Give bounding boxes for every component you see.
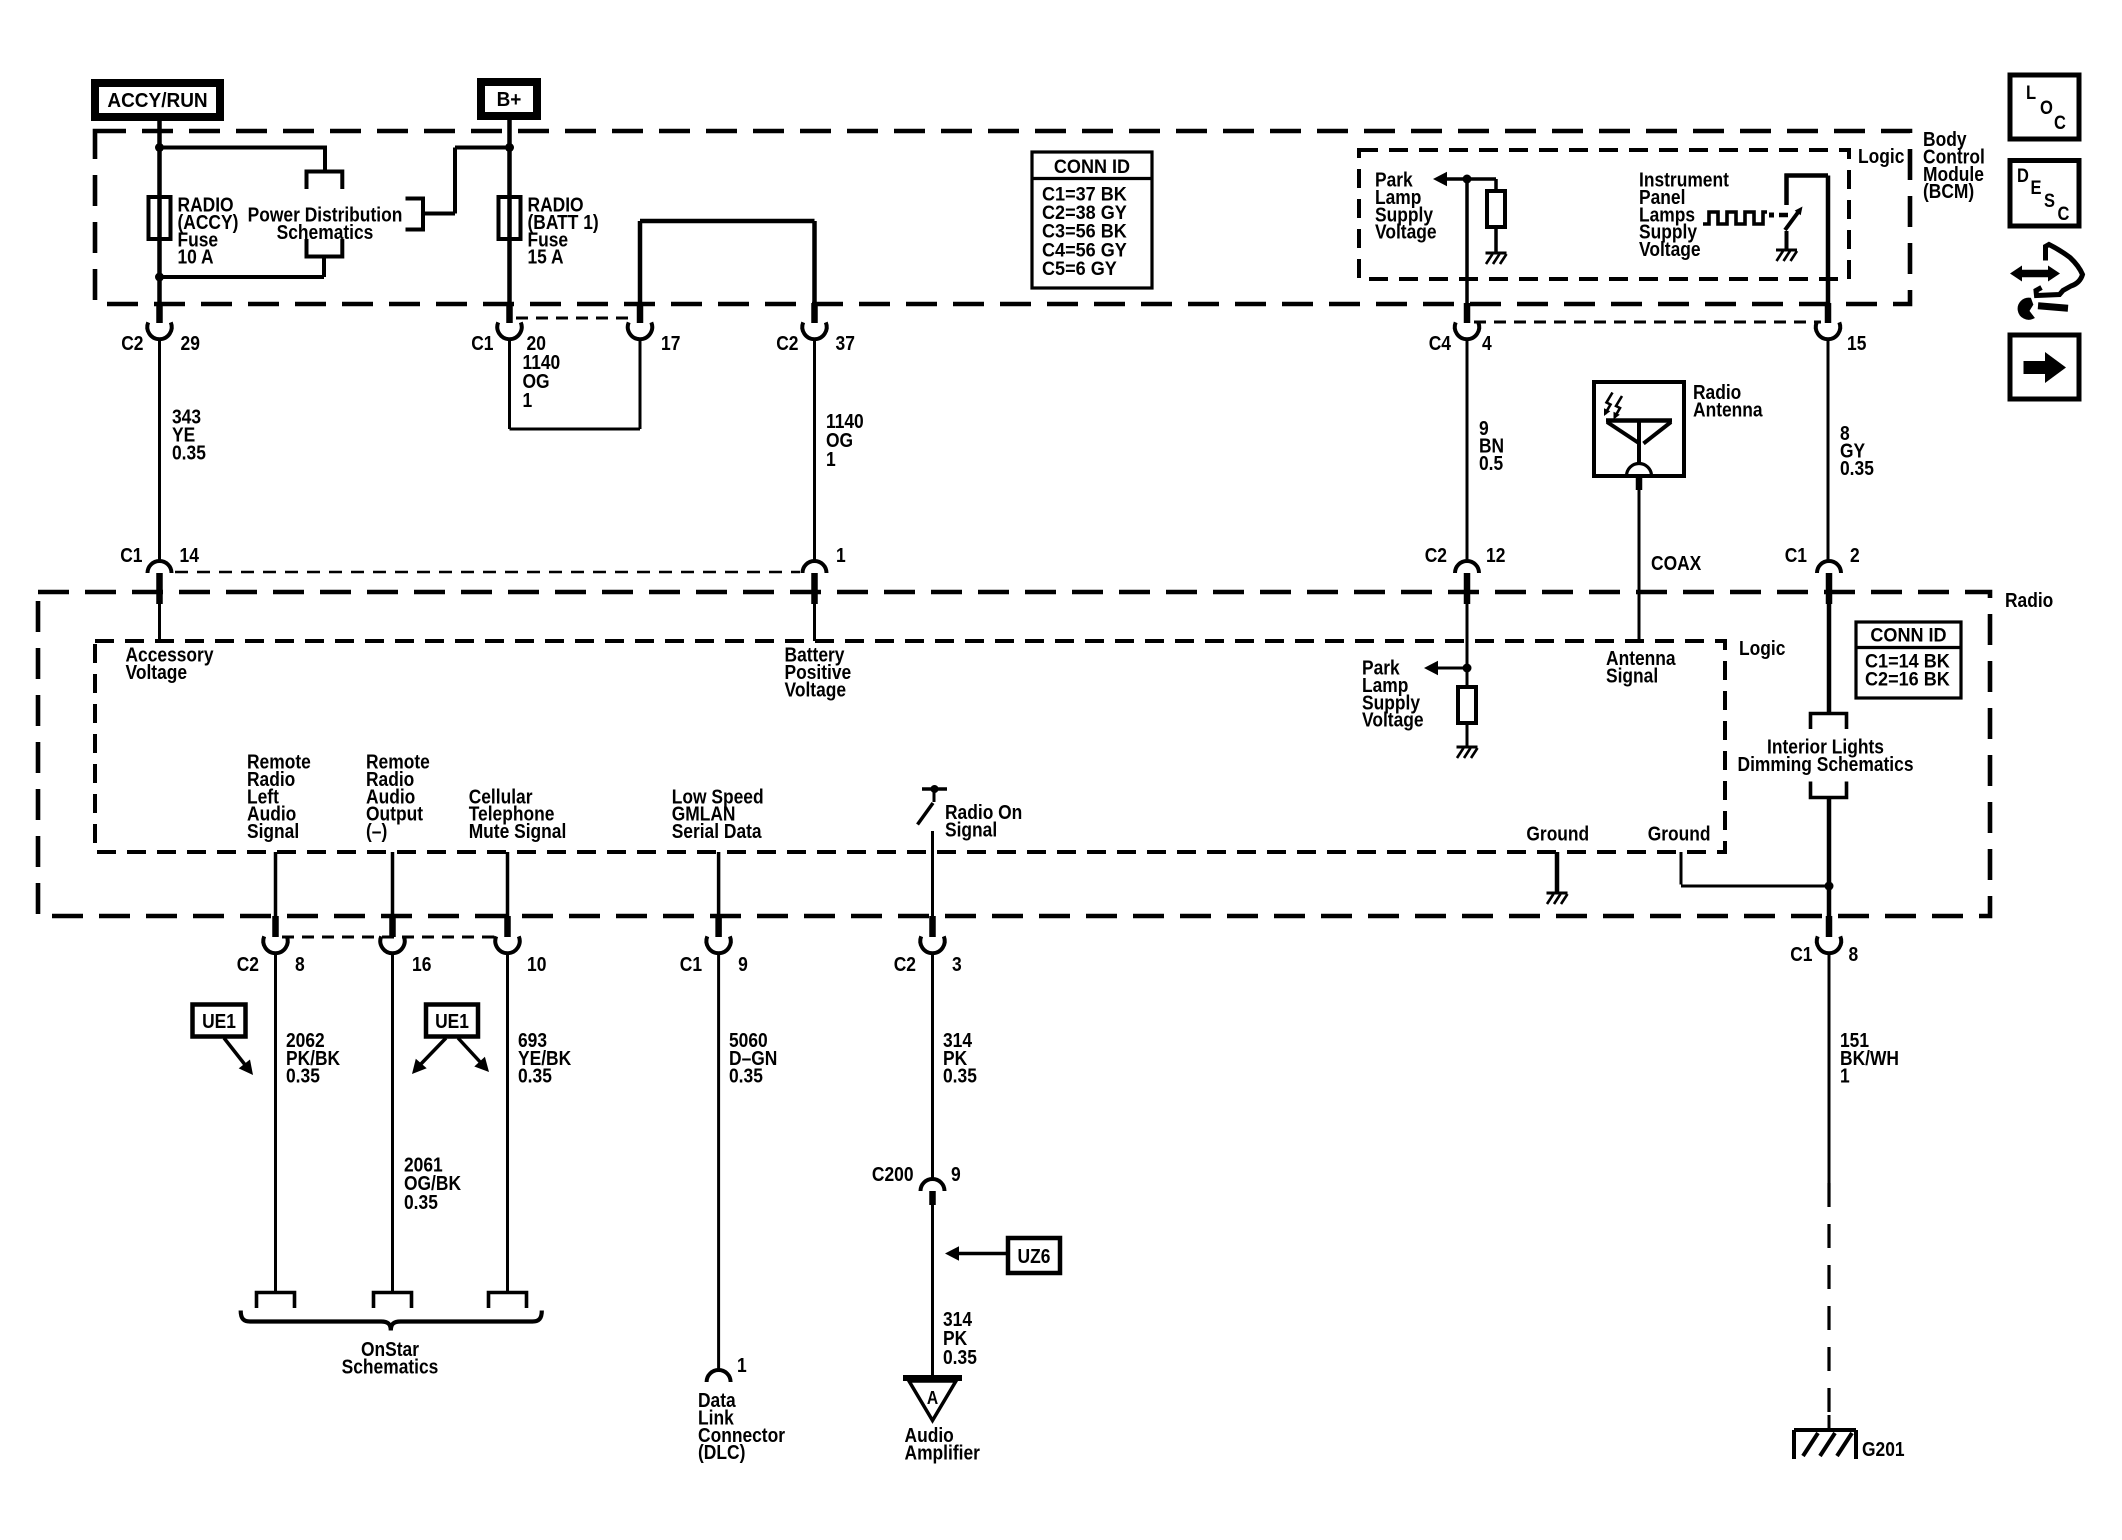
wire switch to ground (instrument lamps): [1785, 231, 1789, 250]
node junction B+: [505, 143, 514, 152]
callout UE1 right: [426, 1005, 478, 1037]
arrow park lamp supply (radio): [1424, 661, 1438, 675]
svg-text:Radio: Radio: [2005, 590, 2053, 612]
wire battery positive into radio: [813, 604, 816, 641]
connector link C1 20 to 17: [516, 317, 634, 320]
svg-text:Ground: Ground: [1526, 824, 1589, 846]
ground chassis (instrument lamps): [1776, 249, 1797, 252]
switch instrument panel lamps lever: [1785, 211, 1799, 230]
svg-text:37: 37: [836, 333, 855, 355]
svg-text:O: O: [2040, 98, 2053, 119]
svg-text:A: A: [927, 1388, 938, 1408]
wire ACCY/RUN to fuse: [157, 117, 162, 303]
wire 1140 OG to radio: [813, 339, 816, 561]
svg-text:0.35: 0.35: [943, 1347, 977, 1369]
svg-text:Voltage: Voltage: [126, 662, 188, 684]
svg-text:C200: C200: [872, 1164, 914, 1186]
connector pin 16 stub (remote audio output): [389, 916, 396, 937]
connector C2 pin 8 (remote left audio): [263, 936, 287, 953]
svg-text:S: S: [2044, 191, 2055, 212]
brace OnStar: [241, 1311, 542, 1331]
svg-text:CONN ID: CONN ID: [1870, 626, 1946, 647]
off-page ref Interior Lights top bracket: [1811, 714, 1847, 730]
svg-text:Mute Signal: Mute Signal: [469, 821, 567, 843]
svg-text:0.35: 0.35: [286, 1066, 320, 1088]
wire resistor to ground (radio): [1466, 723, 1469, 747]
svg-text:UE1: UE1: [202, 1011, 236, 1033]
switch Radio On Signal: [922, 787, 947, 791]
connector C2 pin 8 stub (remote left audio): [272, 916, 279, 937]
wire remote audio output inside radio: [391, 852, 395, 916]
svg-text:Serial Data: Serial Data: [672, 821, 763, 843]
terminal onstar 3: [489, 1293, 527, 1309]
svg-text:0.35: 0.35: [1840, 458, 1874, 480]
svg-text:12: 12: [1486, 545, 1505, 567]
switch instrument panel lamps upper contact: [1784, 174, 1789, 206]
svg-text:Dimming Schematics: Dimming Schematics: [1738, 754, 1914, 776]
wire ground case to pin 8: [1680, 852, 1683, 885]
svg-text:(BCM): (BCM): [1923, 181, 1974, 203]
arrow UE1 right-left: [419, 1038, 446, 1066]
dashed box Radio logic: [95, 641, 1725, 852]
svg-text:C2: C2: [121, 333, 143, 355]
svg-text:0.35: 0.35: [404, 1192, 438, 1214]
svg-text:Voltage: Voltage: [1639, 239, 1701, 261]
svg-text:C: C: [2058, 204, 2070, 225]
table CONN ID (radio): [1856, 622, 1961, 698]
wire park lamp arrow to resistor: [1447, 177, 1496, 181]
svg-text:Antenna: Antenna: [1693, 399, 1763, 421]
svg-text:1: 1: [737, 1355, 747, 1377]
svg-text:0.35: 0.35: [172, 443, 206, 465]
connector pin 1 (radio): [803, 561, 827, 573]
wire B+ to fuse: [507, 116, 512, 303]
svg-text:Voltage: Voltage: [785, 679, 847, 701]
wire radio on signal down: [931, 831, 934, 916]
connector C1 pin 8 (ground): [1817, 936, 1841, 953]
wire 693 YE/BK: [506, 953, 509, 1291]
connector C200 pin 9: [921, 1179, 945, 1191]
resistor park lamp (radio): [1458, 687, 1476, 723]
power label B+: [481, 82, 537, 116]
svg-text:Schematics: Schematics: [277, 222, 374, 244]
terminal onstar 1: [257, 1293, 295, 1309]
ground G201: [1828, 1415, 1831, 1431]
fuse RADIO (ACCY) 10A: [149, 197, 171, 239]
svg-text:0.5: 0.5: [1479, 453, 1503, 475]
connector pin 15 stub: [1825, 303, 1832, 323]
callout UE1 left: [193, 1005, 246, 1037]
ground chassis (radio park lamp): [1457, 746, 1478, 749]
callout UZ6: [1008, 1238, 1060, 1273]
svg-text:C1: C1: [1785, 545, 1807, 567]
svg-text:G201: G201: [1862, 1439, 1905, 1461]
wire interior lights to pin 8: [1827, 798, 1832, 917]
connector C200 pin 9 stub: [929, 1191, 936, 1205]
svg-text:B+: B+: [497, 89, 522, 111]
svg-text:Signal: Signal: [247, 821, 299, 843]
dashed box Body Control Module outline: [95, 131, 1910, 304]
icon wrench with arrows: [2020, 270, 2050, 278]
svg-text:Voltage: Voltage: [1375, 222, 1437, 244]
svg-text:C4: C4: [1429, 333, 1452, 355]
connector pin 16 (remote audio output): [380, 936, 404, 953]
svg-text:0.35: 0.35: [943, 1066, 977, 1088]
svg-text:10: 10: [527, 954, 546, 976]
svg-text:29: 29: [181, 333, 200, 355]
svg-text:COAX: COAX: [1651, 553, 1702, 575]
component Radio Antenna box: [1594, 382, 1684, 476]
svg-text:15: 15: [1847, 333, 1866, 355]
arrow UE1 left: [224, 1038, 246, 1066]
svg-text:C1: C1: [471, 333, 493, 355]
connector pin 1 (DLC): [707, 1370, 731, 1382]
svg-text:E: E: [2031, 178, 2042, 199]
connector pin 15: [1816, 322, 1840, 339]
svg-text:ACCY/RUN: ACCY/RUN: [107, 90, 207, 112]
svg-text:UE1: UE1: [435, 1011, 469, 1033]
wire 17 to 37 bus: [638, 221, 643, 303]
off-page ref Power Distribution Schematics bottom bracket: [307, 239, 343, 257]
node junction park lamp (BCM): [1463, 175, 1472, 184]
svg-text:C: C: [2054, 113, 2066, 134]
svg-text:CONN ID: CONN ID: [1054, 157, 1130, 178]
svg-text:(DLC): (DLC): [698, 1442, 745, 1464]
svg-text:C1: C1: [120, 545, 142, 567]
arrow park lamp supply (BCM): [1433, 172, 1447, 186]
connector C4 pin 4: [1455, 322, 1479, 339]
svg-text:16: 16: [412, 954, 431, 976]
svg-text:0.35: 0.35: [518, 1066, 552, 1088]
node junction ACCY top: [155, 143, 164, 152]
connector C1 pin 9 (gmlan): [706, 936, 730, 953]
svg-text:C2: C2: [237, 954, 259, 976]
wire 8 GY: [1827, 339, 1830, 561]
icon DESC box: [2010, 161, 2079, 227]
ground chassis (radio logic): [1547, 892, 1568, 895]
radio antenna wave marks: [1605, 393, 1613, 415]
connector link C2 8 to 16 to 10: [282, 936, 500, 939]
wire 2062 PK/BK: [274, 953, 277, 1291]
wire gmlan inside radio: [717, 852, 721, 916]
wire park lamp (radio): [1438, 667, 1467, 670]
arrow UZ6: [959, 1252, 1008, 1256]
svg-text:UZ6: UZ6: [1018, 1246, 1051, 1268]
table CONN ID (BCM): [1032, 152, 1152, 288]
svg-text:1: 1: [523, 390, 533, 412]
svg-text:C1: C1: [680, 954, 702, 976]
connector C1 pin 2: [1817, 561, 1841, 573]
connector C4 pin 4 stub: [1464, 303, 1471, 323]
connector C1 pin 14: [148, 561, 172, 573]
ground chassis (BCM park lamp): [1486, 252, 1507, 255]
svg-text:Schematics: Schematics: [342, 1357, 439, 1379]
svg-text:3: 3: [952, 954, 962, 976]
svg-text:10 A: 10 A: [178, 247, 214, 269]
icon arrow box: [2010, 335, 2079, 399]
wire resistor to ground (BCM): [1494, 227, 1498, 253]
wire 151 BK/WH dashed: [1827, 1183, 1830, 1415]
connector link C1 14 to 1: [175, 571, 800, 574]
svg-text:9: 9: [951, 1164, 961, 1186]
wire Power Distribution Schematics to B+: [423, 212, 455, 216]
svg-text:8: 8: [1849, 944, 1859, 966]
node junction ACCY bottom: [155, 273, 164, 282]
svg-text:D: D: [2017, 166, 2029, 187]
connector C2 pin 12 stub: [1464, 573, 1471, 604]
wire Power Distribution Schematics bottom return: [322, 257, 326, 278]
svg-text:Amplifier: Amplifier: [905, 1442, 981, 1464]
svg-text:Ground: Ground: [1648, 824, 1711, 846]
connector C1 pin 20 stub: [506, 303, 513, 323]
svg-text:Signal: Signal: [1606, 665, 1658, 687]
svg-text:Logic: Logic: [1739, 638, 1785, 660]
node junction ground pin 8: [1825, 882, 1834, 891]
PWM square wave symbol: [1703, 212, 1767, 224]
connector C1 pin 14 stub: [156, 573, 163, 604]
svg-text:9: 9: [738, 954, 748, 976]
dashed box BCM lamps logic: [1359, 150, 1849, 279]
svg-text:0.35: 0.35: [729, 1066, 763, 1088]
wire accessory voltage into radio: [158, 604, 161, 641]
connector pin 10 stub (cellular mute): [504, 916, 511, 937]
wire ground stub (logic): [1555, 852, 1560, 893]
wire 9 BN: [1466, 339, 1469, 561]
connector C1 pin 20: [497, 322, 521, 339]
svg-text:L: L: [2026, 83, 2036, 104]
svg-text:Logic: Logic: [1858, 146, 1904, 168]
connector pin 1 stub: [811, 573, 818, 604]
wire interior lights feed: [1827, 604, 1832, 714]
terminal onstar 2: [374, 1293, 412, 1309]
wire COAX antenna to radio: [1636, 476, 1643, 490]
connector C2 pin 29 stub: [156, 303, 163, 323]
svg-text:14: 14: [180, 545, 200, 567]
off-page ref Interior Lights bottom bracket: [1811, 782, 1847, 798]
wire 151 BK/WH solid: [1828, 953, 1831, 1183]
svg-text:(–): (–): [366, 821, 387, 843]
wire 314 PK lower: [931, 1205, 934, 1378]
connector C1 pin 2 stub: [1826, 573, 1833, 604]
svg-text:1: 1: [826, 449, 836, 471]
wire remote left audio inside radio: [274, 852, 278, 916]
wire instrument lamps to pin 15: [1785, 173, 1829, 178]
connector pin 17 stub: [637, 303, 644, 323]
connector C2 pin 37: [802, 322, 826, 339]
radio antenna symbol: [1606, 418, 1672, 423]
wire park lamp to pin 4: [1465, 179, 1469, 303]
wire 2061 OG/BK: [391, 953, 394, 1291]
svg-text:C1: C1: [1790, 944, 1812, 966]
arrow UE1 right-right: [458, 1038, 482, 1064]
svg-text:4: 4: [1482, 333, 1492, 355]
svg-text:C2: C2: [776, 333, 798, 355]
svg-text:15 A: 15 A: [528, 247, 564, 269]
icon LOC box: [2010, 75, 2079, 139]
svg-text:C2=16 BK: C2=16 BK: [1865, 670, 1950, 691]
node junction park lamp (radio): [1463, 664, 1472, 673]
fuse RADIO (BATT 1) 15A: [499, 197, 521, 239]
connector C2 pin 3 stub (radio on): [929, 916, 936, 937]
component Audio Amplifier triangle: [903, 1375, 962, 1381]
svg-text:17: 17: [661, 333, 680, 355]
svg-text:2: 2: [1850, 545, 1860, 567]
connector C1 pin 8 stub (ground): [1826, 916, 1833, 937]
svg-text:C2: C2: [1425, 545, 1447, 567]
connector C2 pin 3 (radio on): [920, 936, 944, 953]
off-page ref Power Distribution Schematics top bracket: [307, 172, 343, 190]
connector C2 pin 29: [147, 322, 171, 339]
off-page ref Power Distribution Schematics right bracket: [406, 199, 424, 230]
svg-text:Voltage: Voltage: [1362, 710, 1424, 732]
connector C2 pin 37 stub: [811, 303, 818, 323]
power label ACCY/RUN: [95, 83, 220, 117]
connector C1 pin 9 stub (gmlan): [715, 916, 722, 937]
svg-text:1: 1: [836, 545, 846, 567]
svg-text:Signal: Signal: [945, 819, 997, 841]
wire 314 PK upper: [931, 953, 934, 1179]
wire cellular mute inside radio: [506, 852, 510, 916]
wire to Power Distribution Schematics top: [160, 146, 326, 150]
svg-text:1: 1: [1840, 1066, 1850, 1088]
connector C2 pin 12: [1455, 561, 1479, 573]
dashed box Radio outline: [38, 592, 1990, 916]
connector link C4 4 to 15: [1474, 321, 1821, 324]
wire 1140 OG loop: [508, 339, 511, 429]
svg-text:8: 8: [295, 954, 305, 976]
resistor park lamp (BCM): [1487, 191, 1505, 227]
svg-text:C2: C2: [894, 954, 916, 976]
wire 343 YE: [158, 339, 161, 561]
connector pin 10 (cellular mute): [495, 936, 519, 953]
connector pin 17: [628, 322, 652, 339]
svg-text:C5=6 GY: C5=6 GY: [1042, 259, 1117, 280]
wire 5060 D-GN: [717, 953, 720, 1370]
